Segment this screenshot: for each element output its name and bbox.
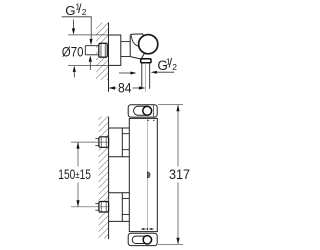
supply pipe stub behind wall [85, 46, 99, 55]
small ticks below cap [148, 120, 149, 121]
union nut behind wall (side view) [99, 43, 108, 57]
bottom union escutcheon [109, 193, 130, 222]
svg-text:317: 317 [169, 167, 190, 183]
leader line from G1/2 label [62, 17, 92, 39]
bottom union hex nut (bold) [99, 202, 109, 213]
dimension Ø70: lower arrow [73, 72, 75, 78]
top handle oval [134, 106, 152, 115]
wall hatch (side view) [96, 23, 109, 81]
thermostat knob circle (side view) [139, 35, 158, 54]
pipe centerline / extension [145, 63, 147, 92]
svg-text:84: 84 [118, 80, 132, 96]
button bump on centerline [148, 172, 150, 178]
mixer body wedge (side view) [130, 34, 146, 59]
top union hex nut (bold) [99, 137, 109, 148]
dimension 317: bottom extension line [158, 243, 183, 245]
bottom union nipple [122, 198, 129, 214]
wedge curved face line [131, 36, 141, 47]
top handle knob circle [143, 106, 152, 115]
arrow up to pipe bottom [89, 55, 92, 62]
arrow down to pipe top [89, 39, 92, 46]
body shaft (bottom view) [129, 118, 157, 231]
facing arrows at outlet thread (left) [119, 72, 131, 74]
dimension Ø70: bottom extension line [68, 64, 110, 66]
dimension 317 line upper segment [177, 105, 179, 167]
top union pipe stub [95, 139, 99, 146]
body centerline [146, 119, 148, 229]
top union escutcheon [109, 128, 130, 157]
bottom union pipe stub [95, 203, 99, 210]
wall face line (side view) [108, 23, 110, 92]
tiny dimension at bottom of body [141, 228, 143, 230]
dimension 317: top extension line [158, 104, 183, 106]
wall face line (bottom view) [108, 117, 110, 240]
svg-text:2: 2 [82, 7, 87, 17]
bottom handle knob circle [143, 236, 151, 244]
bottom handle cap [128, 233, 157, 245]
wall hatch (bottom view) [99, 117, 109, 239]
svg-text:G: G [65, 3, 75, 18]
dimension 150±15 line lower segment [77, 183, 79, 207]
facing arrows at outlet thread (right, leader of G1/2) [151, 71, 157, 74]
outlet ring (dark band) [141, 59, 151, 63]
cap inner panel line [152, 105, 154, 117]
dimension 150±15 line upper segment [77, 142, 79, 166]
connector between escutcheon and body [121, 42, 131, 57]
dimension Ø70: upper arrow [73, 20, 75, 30]
outlet pipe going down [141, 63, 143, 89]
dimension 317 line lower segment [177, 183, 179, 245]
svg-text:Ø70: Ø70 [62, 45, 84, 60]
dimension Ø70: top extension line [68, 34, 110, 36]
top union nipple [122, 134, 129, 150]
dimension 84 [109, 86, 116, 89]
bottom handle oval [132, 236, 152, 243]
escutcheon (side view) [109, 35, 121, 65]
top handle cap [128, 105, 157, 117]
svg-text:2: 2 [172, 62, 177, 72]
bottom union centerline [71, 206, 108, 208]
svg-text:150±15: 150±15 [58, 166, 91, 182]
top union centerline [71, 141, 108, 143]
